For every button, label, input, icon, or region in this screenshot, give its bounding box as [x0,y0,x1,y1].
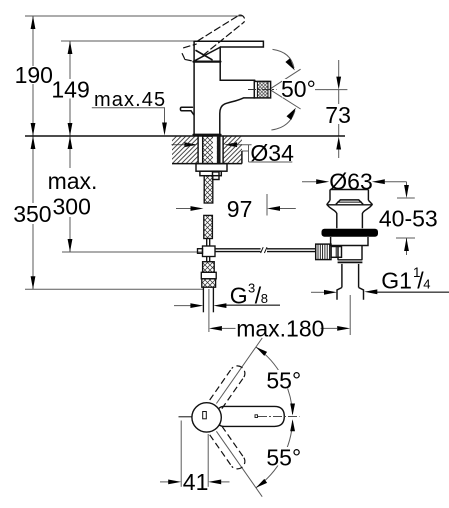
svg-text:190: 190 [15,62,53,88]
svg-text:50°: 50° [281,76,316,102]
svg-text:max.45: max.45 [94,89,166,111]
svg-text:149: 149 [51,77,89,103]
svg-text:8: 8 [261,291,268,306]
svg-text:max.180: max.180 [236,315,324,341]
svg-text:55°: 55° [266,367,301,393]
svg-text:300: 300 [53,193,91,219]
svg-text:73: 73 [325,102,351,128]
svg-text:Ø63: Ø63 [329,168,372,194]
svg-text:4: 4 [423,277,430,292]
svg-text:max.: max. [48,168,98,194]
svg-text:97: 97 [227,196,253,222]
svg-text:Ø34: Ø34 [250,140,294,166]
svg-text:41: 41 [183,469,209,495]
svg-text:G: G [230,283,248,309]
svg-text:G1: G1 [381,267,412,293]
svg-text:55°: 55° [266,444,301,470]
svg-text:40-53: 40-53 [379,205,438,231]
svg-text:350: 350 [13,201,51,227]
